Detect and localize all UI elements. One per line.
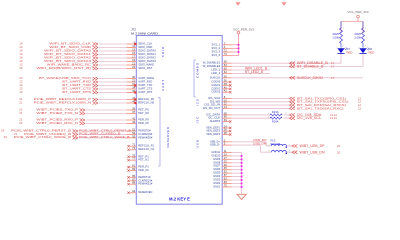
pin 11 (GND11) name/number bbox=[211, 149, 227, 154]
power symbol VCC_PER_3V3 (left, feeding 3V3 pins) bbox=[233, 28, 254, 34]
svg-text:RESERVED: RESERVED bbox=[138, 190, 153, 194]
net label WIFI_LED1_B bbox=[245, 66, 267, 70]
wire GND row y=155.9 bbox=[222, 155, 241, 157]
wire I2C row y=118.2 bbox=[222, 117, 289, 119]
wire 3V3 pin row y=48.4 bbox=[222, 47, 238, 49]
net label BT_SAI_TXFS(SPI0_CS1) bbox=[290, 100, 362, 104]
svg-text:1.00k: 1.00k bbox=[354, 36, 361, 40]
svg-text:PCIE_WIBT_REFCLK100M_N: PCIE_WIBT_REFCLK100M_N bbox=[34, 100, 91, 104]
wire net BT_DISABLE_B (pin 54 to LED D6) bbox=[222, 57, 363, 67]
junction GND bus y=162.8 bbox=[241, 162, 243, 164]
no-connect stub at y=127.9 bbox=[222, 127, 231, 129]
wire net BT_SAI_TXD(SAI_RXC) bbox=[222, 107, 289, 109]
wire net PCIE_WIBT_CTRL0_PERST_B to pin 52 (PERST0#) bbox=[1, 128, 151, 133]
pin 3 (USB_D+) name/number bbox=[210, 138, 226, 143]
net label WIBT_USB_DN bbox=[292, 150, 341, 154]
svg-text:I2C: I2C bbox=[196, 116, 200, 124]
junction GND bus y=176.6 bbox=[241, 176, 243, 178]
svg-text:LED_2: LED_2 bbox=[211, 71, 220, 75]
pin 24 (VEN_DEF1) name/number bbox=[206, 124, 227, 129]
svg-text:21: 21 bbox=[19, 121, 23, 125]
net label BT_SAI_RXD(SAI_RXFS) bbox=[290, 103, 362, 107]
svg-text:43: 43 bbox=[132, 120, 136, 124]
svg-text:13: 13 bbox=[19, 90, 23, 94]
junction square at pin y=99.5 bbox=[134, 98, 136, 100]
junction GND bus y=159.4 bbox=[241, 158, 243, 160]
svg-text:12: 12 bbox=[358, 106, 362, 110]
wire net BT_UART_RXD to pin 22 (UART_RXD) bbox=[19, 79, 153, 84]
no-connect stub at y=82.0 bbox=[222, 81, 231, 83]
pin 58 (I2C_DATA) name/number bbox=[206, 111, 227, 116]
wire GND row y=186.9 bbox=[222, 186, 241, 188]
no-connect pin 89 (PEWAKE1#) bbox=[127, 181, 152, 186]
svg-text:PER_N0: PER_N0 bbox=[138, 121, 149, 125]
wire GND row y=173.1 bbox=[222, 172, 241, 174]
junction on 3V3 rail y=52.0 bbox=[238, 51, 240, 53]
pin 39 (GND7) name/number bbox=[213, 163, 227, 168]
svg-text:23: 23 bbox=[132, 65, 136, 69]
pin 5 (USB_D-) name/number bbox=[210, 142, 226, 147]
svg-text:WIBT_USB_DP: WIBT_USB_DP bbox=[300, 144, 325, 148]
wire GND row y=180.0 bbox=[222, 179, 241, 181]
svg-text:13,24: 13,24 bbox=[330, 116, 337, 120]
svg-text:WIBT_PCIE0_TX0_N: WIBT_PCIE0_TX0_N bbox=[36, 111, 78, 115]
no-connect pin 77 (PET_N1) bbox=[127, 157, 149, 162]
pin 14 (I2S_SD_OUT) name/number bbox=[203, 105, 228, 110]
wire net WIBT_PCIE0_RX0_P to pin 41 (PER_P0) bbox=[19, 117, 149, 122]
pin 8 (I2S_SCK) name/number bbox=[208, 95, 226, 100]
svg-text:VCC_PER_3V3: VCC_PER_3V3 bbox=[348, 10, 369, 14]
no-connect pin 81 (PER_P1) bbox=[127, 164, 149, 169]
wire net PCIE_WIBT_CLKREQ_B to pin 53 (CLKREQ0#) bbox=[14, 131, 153, 136]
wire net WIFI_BT_SDIO_DATA1 to pin 15 (SDIO_DATA1) bbox=[19, 51, 156, 56]
resistor R23A bbox=[268, 110, 288, 116]
svg-text:USB_D-: USB_D- bbox=[210, 143, 221, 147]
svg-text:2: 2 bbox=[343, 45, 345, 47]
wire 3V3 pin row y=44.8 bbox=[222, 44, 238, 46]
common-mode choke FL3 90OHM bbox=[268, 139, 290, 154]
net label BT_SAI_TXC(SPI0_CS1) bbox=[290, 96, 362, 100]
svg-text:PER_N1: PER_N1 bbox=[138, 168, 149, 172]
LED D7 RED bbox=[336, 47, 352, 56]
wire net WIBT_PCIE0_TX0_P to pin 35 (PET_P0) bbox=[19, 107, 149, 112]
svg-text:17: 17 bbox=[331, 65, 335, 69]
svg-text:PCIE_WIBT_CTRL0_WAKE_B: PCIE_WIBT_CTRL0_WAKE_B bbox=[14, 135, 71, 139]
wire net BT_UART_TXD to pin 32 (UART_TXD) bbox=[19, 82, 153, 87]
wire net BT_UART_CTS to pin 34 (UART_CTS) bbox=[19, 86, 152, 91]
wire net WIBT_USB_DN bbox=[287, 151, 292, 153]
resistor R225 1.00k bbox=[354, 22, 366, 48]
connector J2 M.2 MINI CARD body bbox=[136, 36, 222, 205]
wire net WIFI_BT_SDIO_DATA2 to pin 17 (SDIO_DATA2) bbox=[19, 55, 156, 60]
junction GND bus y=155.9 bbox=[241, 155, 243, 157]
wire net BT_UART_RTS to pin 36 (UART_RTS) bbox=[19, 89, 152, 94]
LED D6 RED bbox=[358, 47, 374, 56]
wire 3V3 rail vertical bbox=[238, 34, 240, 56]
wire net BT_SAI_RXD(SAI_RXFS) bbox=[222, 104, 289, 106]
wire net WIBT_PCIE0_TX0_N to pin 37 (PET_N0) bbox=[19, 110, 149, 115]
no-connect pin 85 (PERST1#) bbox=[127, 174, 150, 179]
group label UART bbox=[161, 79, 165, 91]
net label I2C_1V8_SCL bbox=[290, 116, 338, 120]
svg-text:WIFI_EN(B/WIFI_RST_B): WIFI_EN(B/WIFI_RST_B) bbox=[36, 66, 91, 70]
svg-text:GND1: GND1 bbox=[213, 184, 220, 188]
svg-text:2: 2 bbox=[365, 45, 367, 47]
net label BT_LED2_B bbox=[245, 70, 263, 74]
svg-text:PET_N0: PET_N0 bbox=[138, 111, 149, 115]
power arrow (sheet top, x=284) bbox=[281, 2, 286, 6]
no-connect pin 73 (REFCLK_N1) bbox=[127, 146, 154, 151]
junction GND bus y=169.7 bbox=[241, 169, 243, 171]
pin 26 (VEN_DEF2) name/number bbox=[206, 128, 227, 133]
wire GND row y=169.7 bbox=[222, 169, 241, 171]
pin 2 (3V3_1) name/number bbox=[211, 41, 225, 46]
pin 62 (LED_2) name/number bbox=[211, 70, 227, 75]
wire GND bus vertical bbox=[241, 153, 243, 195]
no-connect pin 71 (REFCLK_P1) bbox=[127, 143, 154, 148]
svg-text:RED: RED bbox=[347, 50, 353, 54]
svg-text:M.2 MINI CARD: M.2 MINI CARD bbox=[131, 31, 159, 35]
svg-text:20: 20 bbox=[337, 150, 341, 154]
group label I2S bbox=[196, 98, 200, 106]
svg-text:R225: R225 bbox=[355, 32, 362, 36]
svg-text:WIBT_USB_DN: WIBT_USB_DN bbox=[300, 150, 326, 154]
svg-text:17: 17 bbox=[331, 76, 335, 80]
pin 57 (GND4) name/number bbox=[213, 173, 227, 178]
no-connect stub at y=134.5 bbox=[222, 133, 231, 135]
wire net BT_LED2_B (pin 62) bbox=[222, 72, 270, 74]
junction on 3V3 rail y=44.8 bbox=[238, 44, 240, 46]
pin 36 (COEX0) name/number bbox=[211, 79, 227, 84]
svg-text:WIBT_PCIE0_RX0_N: WIBT_PCIE0_RX0_N bbox=[36, 121, 78, 125]
pin 28 (VEN_DEF3) name/number bbox=[206, 131, 227, 136]
net label I2C_1V8_SDA bbox=[290, 113, 338, 117]
svg-text:73: 73 bbox=[132, 146, 136, 150]
pin 72 (3V3_3) name/number bbox=[211, 49, 227, 54]
no-connect stub at y=88.8 bbox=[222, 88, 231, 90]
title M.2 KEY E bbox=[169, 196, 190, 201]
wire net WIFI_BT_SDIO_DATA3 to pin 19 (SDIO_DATA3) bbox=[19, 58, 156, 63]
no-connect stub at y=92.2 bbox=[222, 91, 231, 93]
power arrow (sheet top, x=238) bbox=[235, 2, 240, 6]
svg-text:COMBO: COMBO bbox=[196, 62, 200, 78]
junction GND bus y=173.1 bbox=[241, 172, 243, 174]
pin 4 (3V3_2) name/number bbox=[211, 45, 225, 50]
junction GND bus y=166.3 bbox=[241, 165, 243, 167]
svg-text:UART_RTS: UART_RTS bbox=[138, 90, 152, 94]
wire GND row y=152.5 bbox=[222, 152, 241, 154]
net label BT_SAI_TXD(SAI_RXC) bbox=[290, 106, 362, 110]
group label SDIO bbox=[161, 46, 165, 58]
wire net WIFI_LED1_B (pin 60) bbox=[222, 69, 270, 71]
svg-text:1: 1 bbox=[343, 28, 345, 30]
wire net PCIE_WIBT_REFCLK100M_N to pin 49 (REFCLK_N0) bbox=[19, 100, 154, 105]
svg-text:55: 55 bbox=[132, 134, 136, 138]
wire net WIFI_DISABLE_B (pin 56 to LED D7) bbox=[222, 57, 341, 64]
net label USB_DP bbox=[253, 138, 267, 142]
ground symbol bbox=[237, 194, 246, 199]
svg-text:REFCLK_N1: REFCLK_N1 bbox=[138, 147, 154, 151]
svg-text:RED: RED bbox=[369, 50, 375, 54]
pin 63 (GND3) name/number bbox=[213, 177, 227, 182]
net label USB_DM bbox=[253, 142, 267, 146]
svg-text:PCIE_WIBT_CTRL0_WAKE_B: PCIE_WIBT_CTRL0_WAKE_B bbox=[79, 135, 130, 139]
no-connect stub at y=121.5 bbox=[222, 120, 231, 122]
svg-text:USB_DM: USB_DM bbox=[253, 142, 267, 146]
svg-text:R24A: R24A bbox=[272, 120, 279, 124]
pin 12 (I2S_SD_IN) name/number bbox=[204, 102, 227, 107]
junction on 3V3 rail y=48.4 bbox=[238, 48, 240, 50]
wire GND row y=159.4 bbox=[222, 158, 241, 160]
pin 56 (W_DISABLE1) name/number bbox=[203, 60, 228, 65]
net label BT_DISABLE_B bbox=[290, 65, 335, 69]
power symbol VCC_PER_3V3 (top right) bbox=[348, 10, 369, 18]
pin 74 (3V3_4) name/number bbox=[211, 52, 227, 57]
wire 3V3 pin row y=52.0 bbox=[222, 51, 238, 53]
net label WIBT_USB_DP bbox=[292, 144, 341, 148]
junction GND bus y=180.0 bbox=[241, 179, 243, 181]
svg-text:21: 21 bbox=[19, 100, 23, 104]
no-connect stub at y=85.4 bbox=[222, 84, 231, 86]
bracket PCIE lane group bbox=[158, 98, 160, 167]
wire I2C row y=114.9 bbox=[222, 114, 289, 116]
group label COMBO bbox=[196, 62, 200, 78]
svg-text:94: 94 bbox=[132, 189, 136, 193]
wire net WIFI_BT_SDIO_DATA0 to pin 13 (SDIO_DATA0) bbox=[19, 48, 156, 53]
svg-text:I2S: I2S bbox=[196, 98, 200, 106]
resistor R226 1.00k bbox=[332, 22, 344, 48]
pin 38 (COEX1) name/number bbox=[211, 82, 227, 87]
pin 10 (I2S_WS) name/number bbox=[210, 98, 228, 103]
wire net SUSCLK_32KH2 (pin 50) bbox=[222, 77, 363, 79]
svg-text:I2S_SD_OUT: I2S_SD_OUT bbox=[203, 106, 221, 110]
no-connect pin 83 (PER_N1) bbox=[127, 167, 149, 172]
wire net WIFI_BT_SDIO_CLK to pin 9 (SDIO_CLK) bbox=[19, 41, 152, 46]
wire net BT_SAI_TXFS(SPI0_CS1) bbox=[222, 101, 289, 103]
svg-text:16: 16 bbox=[19, 66, 23, 70]
pin 64 (ALERT#) name/number bbox=[210, 118, 228, 123]
no-connect stub at y=131.2 bbox=[222, 130, 231, 132]
svg-text:R23A: R23A bbox=[272, 110, 279, 114]
svg-text:BT_UART_RTS: BT_UART_RTS bbox=[62, 90, 91, 94]
junction square at pin y=85.5 bbox=[134, 84, 136, 86]
no-connect pin 75 (PET_P1) bbox=[127, 153, 149, 158]
wire net USB_DM (USB_D- pin to FL3) bbox=[222, 145, 271, 152]
refdes J?2 bbox=[131, 27, 136, 31]
svg-text:PEWAKE1#: PEWAKE1# bbox=[138, 182, 152, 186]
wire 3V3 pin row y=55.6 bbox=[222, 55, 238, 57]
svg-text:BT_LED2_B: BT_LED2_B bbox=[245, 70, 263, 74]
pin 69 (GND2) name/number bbox=[213, 180, 227, 185]
no-connect pin 87 (CLKREQ1#) bbox=[127, 177, 152, 182]
wire net WIBT_PCIE0_RX0_N to pin 43 (PER_N0) bbox=[19, 120, 149, 125]
svg-text:BT_DISABLE_B: BT_DISABLE_B bbox=[297, 65, 323, 69]
junction square at pin y=44.0 bbox=[134, 43, 136, 45]
svg-text:PEWAKE0#: PEWAKE0# bbox=[138, 135, 152, 139]
wire net PCIE_WIBT_CTRL0_WAKE_B to pin 55 (PEWAKE0#) bbox=[4, 134, 153, 139]
net label SUSCLK_32KH2 bbox=[290, 76, 335, 80]
no-connect pin 94 (RESERVED) bbox=[127, 189, 153, 194]
svg-text:37: 37 bbox=[132, 110, 136, 114]
wire net WIBT_USB_DP bbox=[287, 145, 292, 147]
wire GND row y=162.8 bbox=[222, 162, 241, 164]
wire net WIFI_WAKE_BADC_RC to pin 21 (SDIO_WAKE) bbox=[19, 62, 154, 67]
svg-text:1.00k: 1.00k bbox=[332, 36, 339, 40]
wire net BT_WAKE(USB_SSD_TC2) to pin 30 (UART_WAKE) bbox=[19, 75, 154, 80]
svg-text:VCC_PER_3V3: VCC_PER_3V3 bbox=[233, 28, 254, 32]
svg-text:SDIO_RST: SDIO_RST bbox=[138, 66, 152, 70]
svg-text:VEN_DEF3: VEN_DEF3 bbox=[206, 132, 220, 136]
pin 19 (GND10) name/number bbox=[211, 152, 227, 157]
svg-text:77: 77 bbox=[132, 157, 136, 161]
pin 27 (GND9) name/number bbox=[213, 156, 227, 161]
svg-text:20: 20 bbox=[337, 144, 341, 148]
bracket COMBO group bbox=[194, 60, 196, 97]
wire GND row y=183.5 bbox=[222, 182, 241, 184]
pin 40 (COEX2) name/number bbox=[211, 85, 227, 90]
wire GND row y=176.6 bbox=[222, 176, 241, 178]
svg-text:REFCLK_N0: REFCLK_N0 bbox=[138, 100, 154, 104]
group label USB bbox=[196, 139, 200, 148]
pin 45 (GND6) name/number bbox=[213, 166, 227, 171]
part name M.2 MINI CARD bbox=[131, 31, 159, 35]
group label I2C bbox=[196, 116, 200, 124]
pin 60 (LED_1) name/number bbox=[211, 67, 227, 72]
svg-text:SUSCLK_32KH2: SUSCLK_32KH2 bbox=[297, 76, 323, 80]
junction square at pin y=92.5 bbox=[134, 91, 136, 93]
svg-text:21: 21 bbox=[19, 111, 23, 115]
resistor R24A bbox=[268, 116, 288, 123]
svg-text:BT_SAI_TXD(SAI_RXC): BT_SAI_TXD(SAI_RXC) bbox=[297, 106, 344, 110]
svg-text:COEX3: COEX3 bbox=[211, 90, 220, 94]
wire net PCIE_WIBT_REFCLK100M_P to pin 47 (REFCLK_P0) bbox=[19, 96, 154, 101]
junction square at pin y=103.0 bbox=[134, 102, 136, 104]
svg-text:83: 83 bbox=[132, 167, 136, 171]
svg-text:89: 89 bbox=[132, 181, 136, 185]
svg-text:RESERVED: RESERVED bbox=[166, 126, 170, 147]
svg-text:M.2 KEY E: M.2 KEY E bbox=[169, 196, 190, 201]
svg-text:I2C_1V8_SCL: I2C_1V8_SCL bbox=[297, 116, 321, 120]
svg-text:USB: USB bbox=[196, 139, 200, 148]
svg-text:UART: UART bbox=[161, 79, 165, 91]
group label RESERVED (rotated) bbox=[166, 126, 170, 147]
junction GND bus y=186.9 bbox=[241, 186, 243, 188]
svg-text:23: 23 bbox=[4, 135, 8, 139]
svg-text:PET_N1: PET_N1 bbox=[138, 158, 149, 162]
pin 54 (W_DISABLE2) name/number bbox=[203, 63, 228, 68]
svg-text:SDIO: SDIO bbox=[161, 46, 165, 58]
svg-text:3V3_4: 3V3_4 bbox=[211, 53, 220, 57]
svg-text:1: 1 bbox=[365, 28, 367, 30]
pin 50 (SUSCLK) name/number bbox=[210, 74, 228, 79]
net label WIFI_DISABLE_B bbox=[290, 61, 335, 65]
wire net WIFI_EN(B/WIFI_RST_B) to pin 23 (SDIO_RST) bbox=[19, 65, 152, 70]
svg-text:R226: R226 bbox=[333, 32, 340, 36]
svg-text:23: 23 bbox=[1, 128, 5, 132]
wire net USB_DP (USB_D+ pin to FL3) bbox=[222, 142, 271, 146]
pin 60 (I2C_CLK) name/number bbox=[208, 115, 227, 120]
pin 42 (COEX3) name/number bbox=[211, 89, 227, 94]
pin 51 (GND5) name/number bbox=[213, 170, 227, 175]
junction GND bus y=183.5 bbox=[241, 183, 243, 185]
pin 33 (GND8) name/number bbox=[213, 159, 227, 164]
wire GND row y=166.3 bbox=[222, 165, 241, 167]
wire power tee to resistors bbox=[341, 18, 363, 33]
pin 75 (GND1) name/number bbox=[213, 183, 227, 188]
wire net WIFI_BT_SDIO_CMD to pin 11 (SDIO_CMD) bbox=[19, 44, 153, 49]
wire net BT_SAI_TXC(SPI0_CS1) bbox=[222, 98, 289, 100]
svg-text:ALERT#: ALERT# bbox=[210, 119, 221, 123]
